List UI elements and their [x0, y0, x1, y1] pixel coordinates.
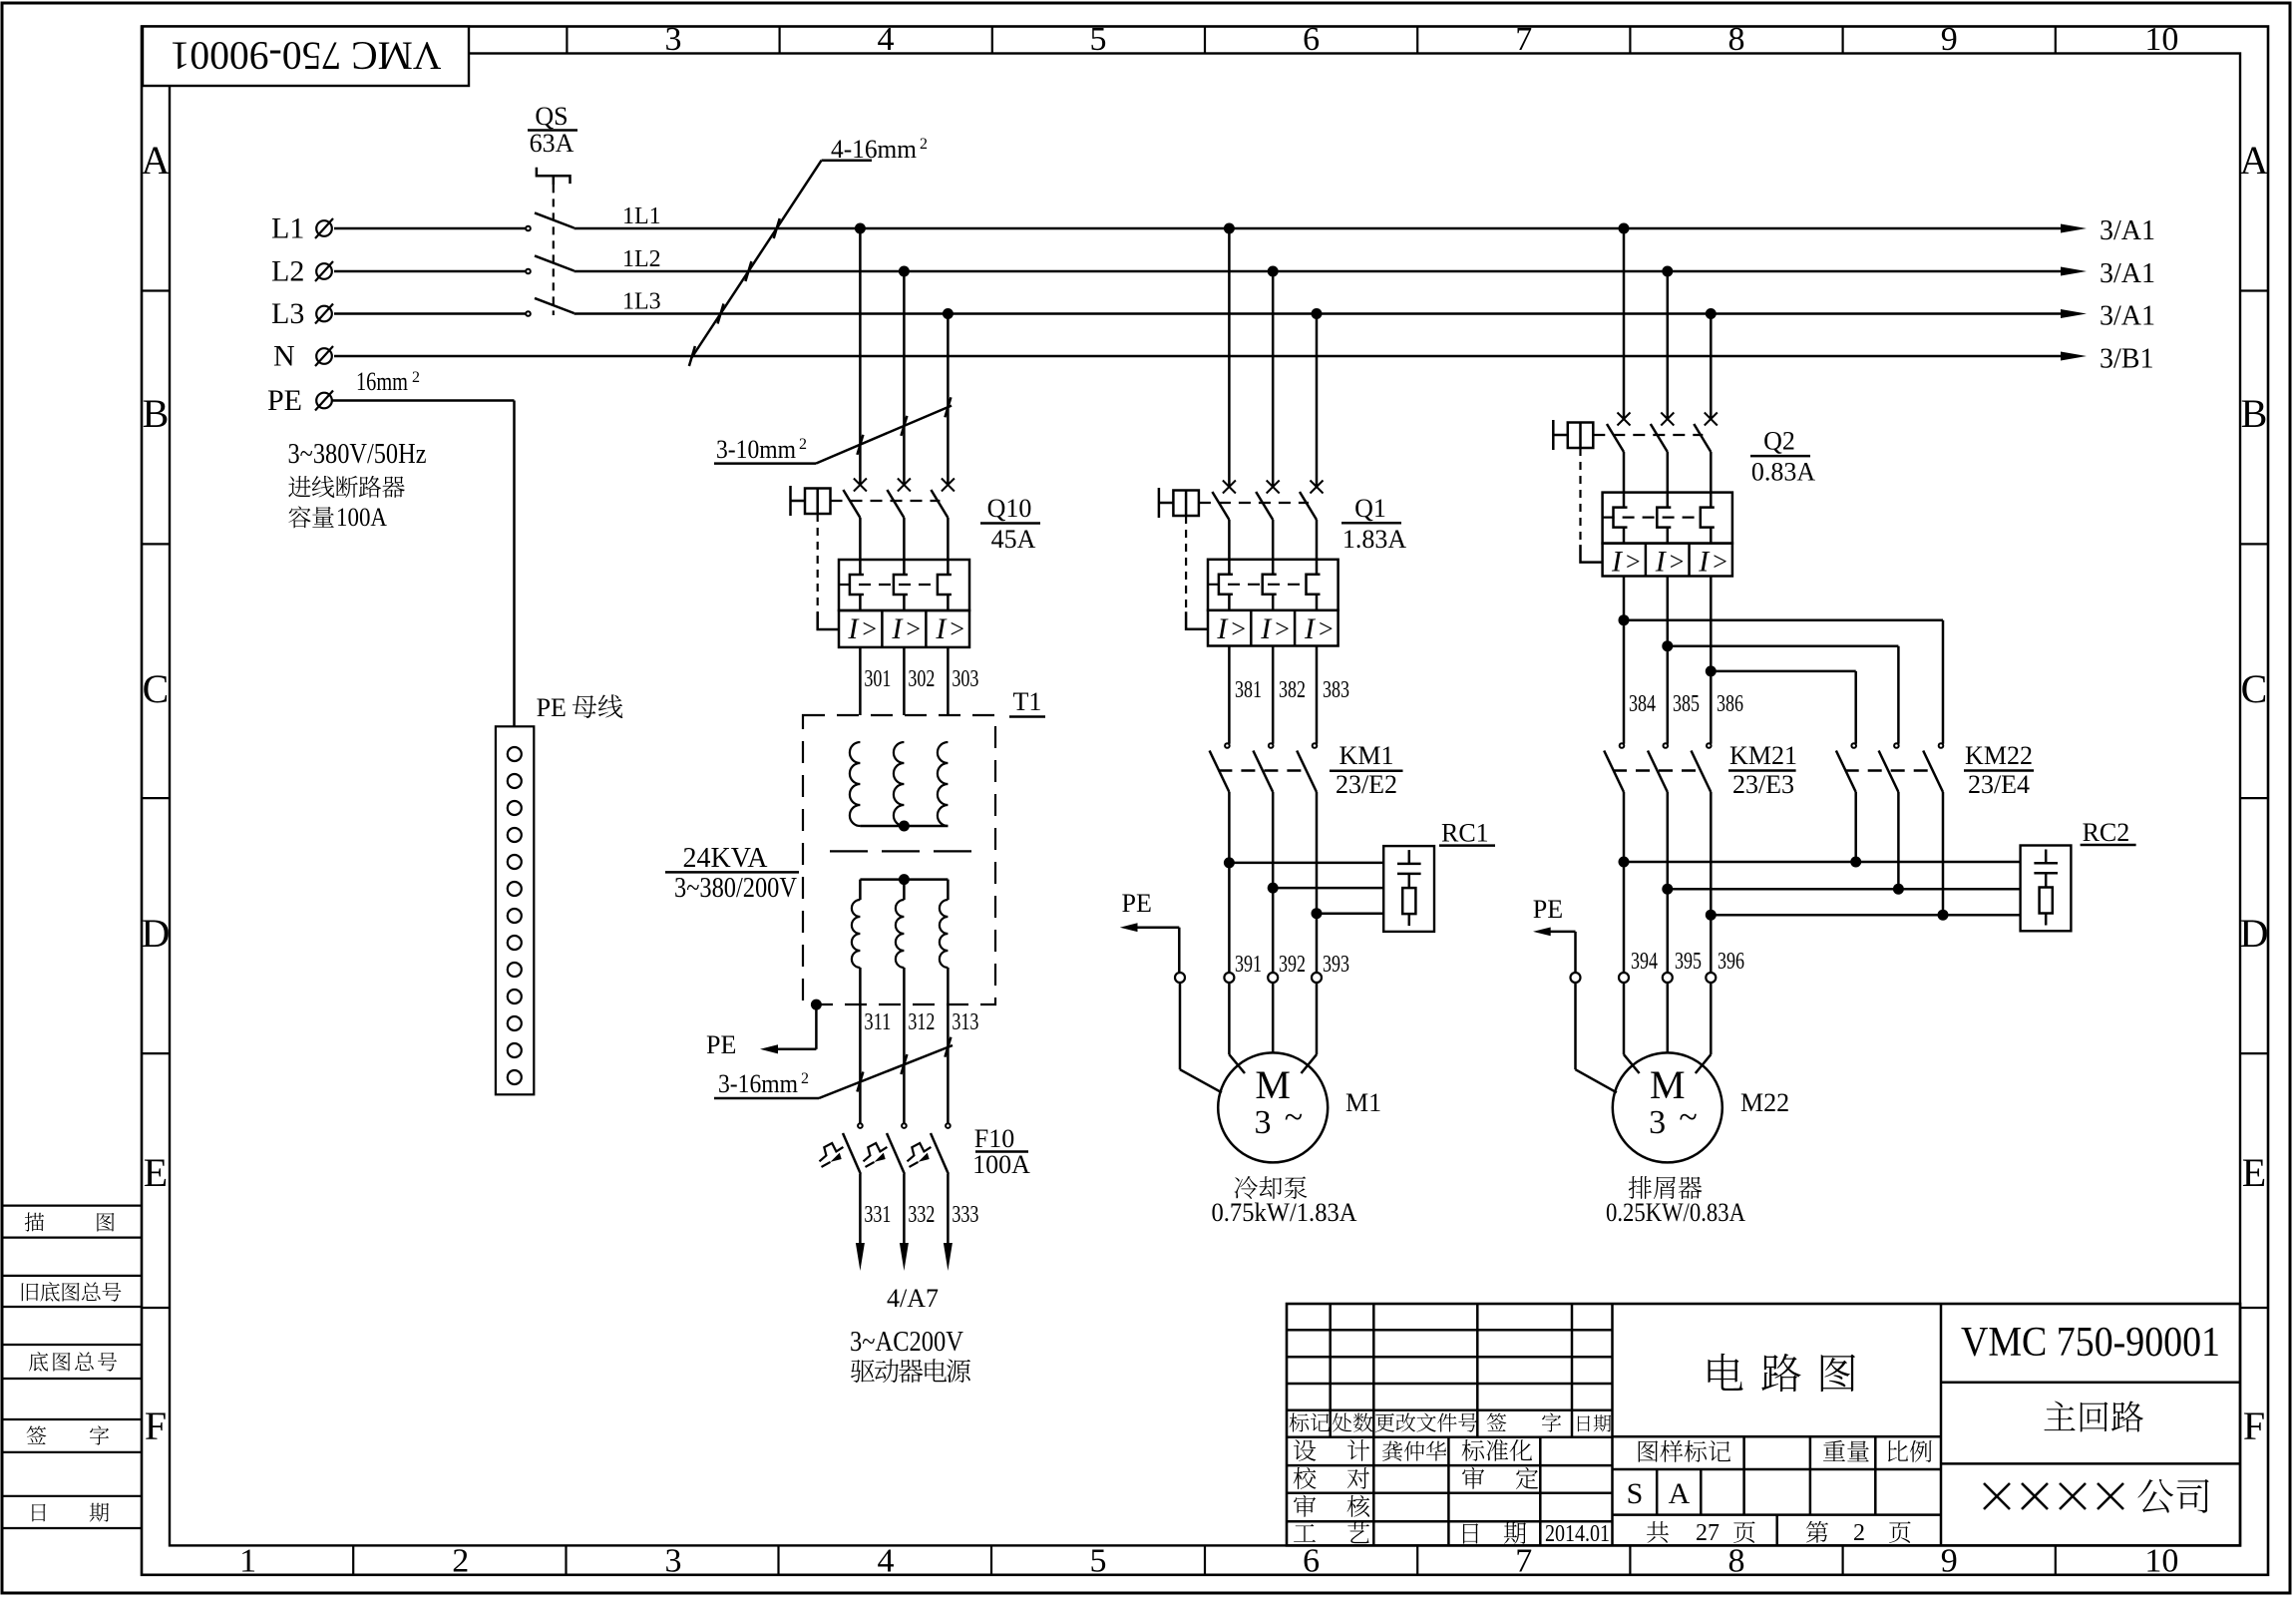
wire L2 drop to Q10: [903, 271, 906, 485]
svg-text:A: A: [2240, 138, 2269, 183]
svg-text:>: >: [1319, 614, 1334, 643]
label wire 391: [1235, 952, 1262, 978]
svg-text:392: 392: [1279, 952, 1306, 978]
label wire 392: [1279, 952, 1306, 978]
circuit breaker Q1 1.83A: [1159, 481, 1406, 646]
svg-text:381: 381: [1235, 677, 1262, 703]
wire bus N: [334, 355, 2061, 358]
junction dots RC2 row 1: [1619, 857, 1862, 868]
svg-text:E: E: [144, 1150, 168, 1195]
svg-text:0.75kW/1.83A: 0.75kW/1.83A: [1212, 1198, 1357, 1227]
svg-text:QS: QS: [535, 102, 568, 131]
svg-text:>: >: [950, 614, 964, 643]
svg-text:10: 10: [2144, 1543, 2178, 1580]
label 3~AC200V drive power: [850, 1327, 970, 1383]
svg-text:2: 2: [920, 136, 928, 153]
svg-text:3: 3: [665, 1543, 682, 1580]
wires KM1 to motor junctions: [1229, 792, 1317, 973]
wire L3 drop to Q1: [1316, 314, 1319, 488]
svg-text:RC2: RC2: [2083, 818, 2130, 847]
label wire 393: [1323, 952, 1349, 978]
label wire 302: [908, 666, 935, 692]
svg-text:10: 10: [2144, 21, 2178, 58]
disconnector QS 63A: [526, 102, 577, 316]
RC snubber RC1: [1383, 819, 1495, 932]
wire 302 to T1: [903, 647, 906, 742]
label wire 395: [1675, 949, 1702, 975]
ground PE terminal for M1: [1120, 889, 1222, 1092]
off-page connector 4/A7 drive supply: [856, 1174, 953, 1313]
svg-text:3/A1: 3/A1: [2100, 258, 2155, 289]
svg-text:KM22: KM22: [1965, 741, 2033, 770]
node N input terminal: [273, 340, 333, 373]
RC snubber RC2: [2021, 818, 2136, 931]
svg-text:311: 311: [864, 1009, 891, 1035]
svg-text:331: 331: [864, 1202, 891, 1228]
svg-text:D: D: [2240, 911, 2269, 956]
svg-text:KM21: KM21: [1729, 741, 1797, 770]
contactor KM1 23/E2: [1210, 741, 1403, 799]
ground PE tap of T1: [706, 999, 822, 1059]
wires KM21 down: [1624, 792, 1711, 973]
label wire 382: [1279, 677, 1306, 703]
svg-text:3~380V/50Hz: 3~380V/50Hz: [288, 439, 427, 470]
off-page connector 3/A1: [2061, 215, 2155, 246]
svg-text:3: 3: [1649, 1104, 1666, 1141]
svg-text:C: C: [2241, 666, 2268, 711]
wire 303 to T1: [947, 647, 950, 742]
junction dot L3 to Q1: [1312, 308, 1323, 319]
svg-text:2014.01: 2014.01: [1545, 1521, 1610, 1547]
svg-text:S: S: [1627, 1477, 1644, 1510]
junction dot L1 to Q1: [1224, 223, 1235, 234]
svg-text:PE: PE: [1533, 895, 1563, 924]
svg-text:9: 9: [1941, 1543, 1958, 1580]
label M1 cooling pump: [1212, 1176, 1357, 1227]
svg-text:303: 303: [952, 666, 978, 692]
junction dot 386 tap: [1706, 665, 1717, 676]
svg-text:E: E: [2242, 1150, 2266, 1195]
svg-text:312: 312: [908, 1009, 935, 1035]
svg-text:9: 9: [1941, 21, 1958, 58]
cable marker 4-16mm2: [689, 135, 928, 366]
label wire 1L3: [622, 289, 661, 315]
svg-text:1L3: 1L3: [622, 289, 661, 315]
node PE input terminal: [267, 384, 333, 417]
wire bus L3: [334, 312, 2061, 315]
label wire 1L2: [622, 246, 661, 272]
wires taps to KM22: [1624, 620, 1943, 744]
svg-text:4: 4: [878, 21, 895, 58]
svg-text:1.83A: 1.83A: [1342, 525, 1407, 554]
svg-text:VMC 750-90001: VMC 750-90001: [171, 34, 442, 79]
svg-text:3/B1: 3/B1: [2100, 344, 2153, 375]
label wire 396: [1718, 949, 1744, 975]
svg-text:F: F: [2243, 1403, 2265, 1448]
svg-text:23/E2: 23/E2: [1336, 770, 1397, 799]
label wire 312: [908, 1009, 935, 1035]
junction dots RC2 row 3: [1706, 910, 1949, 921]
svg-text:~: ~: [1285, 1099, 1303, 1136]
wire L1 drop to Q2: [1623, 228, 1626, 419]
svg-text:2: 2: [801, 1070, 809, 1087]
svg-text:RC1: RC1: [1441, 819, 1489, 848]
junction dot L3 to Q2: [1706, 308, 1717, 319]
svg-text:B: B: [143, 391, 170, 436]
svg-text:302: 302: [908, 666, 935, 692]
junction dot L2 to Q10: [899, 266, 910, 277]
svg-text:394: 394: [1631, 949, 1658, 975]
svg-text:Q10: Q10: [987, 494, 1032, 523]
svg-text:3~380/200V: 3~380/200V: [674, 873, 797, 904]
svg-text:~: ~: [1679, 1099, 1697, 1136]
junction dot L1 to Q10: [855, 223, 866, 234]
circuit breaker Q10 45A: [791, 479, 1041, 648]
label wire 303: [952, 666, 978, 692]
junction dot 393 to RC1: [1312, 908, 1323, 919]
svg-text:A: A: [142, 138, 171, 183]
label wire 311: [864, 1009, 891, 1035]
svg-text:>: >: [1275, 614, 1290, 643]
wires to RC1: [1229, 863, 1383, 914]
label 16mm2 on PE: [356, 367, 420, 396]
svg-text:Q1: Q1: [1354, 494, 1386, 523]
transformer T1 24KVA: [803, 687, 1045, 1123]
label wire 301: [864, 666, 891, 692]
svg-text:100A: 100A: [336, 503, 387, 532]
svg-text:7: 7: [1515, 1543, 1532, 1580]
svg-text:>: >: [1670, 548, 1685, 577]
junction dot L1 to Q2: [1619, 223, 1630, 234]
svg-text:45A: 45A: [991, 525, 1036, 554]
svg-text:313: 313: [952, 1009, 978, 1035]
svg-text:3~AC200V: 3~AC200V: [850, 1327, 963, 1358]
label wire 333: [952, 1202, 978, 1228]
junction dot 384 tap: [1619, 614, 1630, 625]
PE busbar: [496, 693, 622, 1094]
svg-text:3-10mm: 3-10mm: [716, 435, 796, 464]
svg-text:PE: PE: [1122, 889, 1152, 918]
contactor KM21 23/E3: [1604, 741, 1797, 799]
contactor KM22 23/E4: [1836, 741, 2034, 799]
svg-text:5: 5: [1090, 21, 1107, 58]
svg-text:4/A7: 4/A7: [887, 1284, 939, 1313]
wire L2 drop to Q2: [1667, 271, 1670, 419]
svg-text:L1: L1: [271, 212, 304, 245]
svg-text:T1: T1: [1013, 687, 1042, 716]
svg-text:>: >: [1626, 548, 1641, 577]
label wire 386: [1717, 691, 1743, 717]
svg-text:N: N: [273, 340, 295, 373]
svg-text:VMC 750-90001: VMC 750-90001: [1961, 1320, 2220, 1366]
svg-text:F10: F10: [974, 1124, 1014, 1153]
svg-text:2: 2: [799, 436, 807, 453]
motor M1 0.75kW: [1218, 1052, 1381, 1162]
svg-text:5: 5: [1090, 1543, 1107, 1580]
svg-text:3: 3: [1255, 1104, 1272, 1141]
wires KM22 down: [1856, 792, 1943, 915]
cable marker 3-16mm2: [714, 1037, 953, 1098]
svg-text:>: >: [862, 614, 877, 643]
svg-text:332: 332: [908, 1202, 935, 1228]
label M22 chip conveyor: [1606, 1176, 1745, 1227]
svg-text:383: 383: [1323, 677, 1349, 703]
svg-text:6: 6: [1303, 21, 1320, 58]
svg-text:385: 385: [1673, 691, 1700, 717]
svg-text:3: 3: [665, 21, 682, 58]
wire bus L1: [334, 227, 2061, 230]
svg-text:>: >: [1713, 548, 1727, 577]
svg-text:>: >: [906, 614, 921, 643]
wire L3 drop to Q2: [1710, 314, 1713, 420]
wire bus L2: [334, 270, 2061, 273]
svg-text:8: 8: [1728, 21, 1745, 58]
svg-text:M22: M22: [1740, 1088, 1789, 1117]
off-page connector 3/A1: [2061, 258, 2155, 289]
svg-text:M1: M1: [1345, 1088, 1381, 1117]
svg-text:>: >: [1231, 614, 1246, 643]
svg-text:301: 301: [864, 666, 891, 692]
svg-text:KM1: KM1: [1339, 741, 1394, 770]
wire L1 drop to Q10: [859, 228, 862, 485]
node L3 input terminal: [271, 297, 333, 330]
label wire 1L1: [622, 203, 661, 229]
svg-text:PE: PE: [537, 693, 567, 722]
svg-text:7: 7: [1515, 21, 1532, 58]
motor terminals M1: [1224, 973, 1322, 1073]
svg-text:2: 2: [412, 369, 420, 386]
junction dot L2 to Q2: [1662, 266, 1673, 277]
label T1 rating 24KVA 3~380/200V: [665, 843, 799, 904]
label wire 385: [1673, 691, 1700, 717]
svg-text:1: 1: [239, 1543, 256, 1580]
junction dots RC2 row 2: [1662, 884, 1904, 895]
svg-text:D: D: [142, 911, 171, 956]
svg-text:8: 8: [1728, 1543, 1745, 1580]
node L1 input terminal: [271, 212, 333, 245]
circuit breaker Q2 0.83A: [1553, 413, 1815, 579]
svg-text:384: 384: [1629, 691, 1656, 717]
wire 381-383 to KM1: [1229, 646, 1317, 744]
junction dot 392 to RC1: [1268, 883, 1279, 894]
svg-text:1L2: 1L2: [622, 246, 661, 272]
svg-text:4-16mm: 4-16mm: [831, 135, 917, 164]
label wire 384: [1629, 691, 1656, 717]
off-page connector 3/B1: [2061, 344, 2153, 375]
svg-text:63A: 63A: [530, 129, 574, 158]
wire L3 drop to Q10: [947, 314, 950, 486]
svg-text:391: 391: [1235, 952, 1262, 978]
svg-text:333: 333: [952, 1202, 978, 1228]
wires to RC2: [1624, 862, 2021, 915]
svg-text:2: 2: [452, 1543, 469, 1580]
wire L2 drop to Q1: [1272, 271, 1275, 487]
svg-text:24KVA: 24KVA: [682, 843, 768, 874]
motor M22 0.25KW: [1613, 1052, 1789, 1162]
wire L1 drop to Q1: [1228, 228, 1231, 487]
svg-text:100A: 100A: [972, 1150, 1030, 1179]
svg-text:0.25KW/0.83A: 0.25KW/0.83A: [1606, 1198, 1745, 1227]
junction dot L2 to Q1: [1268, 266, 1279, 277]
svg-text:395: 395: [1675, 949, 1702, 975]
svg-text:23/E3: 23/E3: [1732, 770, 1794, 799]
svg-text:A: A: [1669, 1477, 1691, 1510]
label wire 383: [1323, 677, 1349, 703]
svg-text:0.83A: 0.83A: [1751, 458, 1816, 487]
svg-text:3/A1: 3/A1: [2100, 215, 2155, 246]
wires Q2 to KM21 and taps to KM22: [1624, 577, 1711, 744]
label wire 331: [864, 1202, 891, 1228]
svg-text:B: B: [2241, 391, 2268, 436]
label wire 394: [1631, 949, 1658, 975]
svg-text:Q2: Q2: [1763, 427, 1795, 456]
wire bus PE: [333, 401, 515, 727]
svg-text:27: 27: [1696, 1520, 1720, 1546]
svg-text:6: 6: [1303, 1543, 1320, 1580]
wire 301 to T1: [859, 647, 862, 742]
svg-text:1L1: 1L1: [622, 203, 661, 229]
cable marker 3-10mm2: [714, 397, 952, 464]
svg-text:4: 4: [878, 1543, 895, 1580]
fuse switch F10 100A: [820, 1123, 1031, 1179]
ground PE terminal for M22: [1533, 895, 1617, 1092]
svg-text:PE: PE: [706, 1030, 736, 1059]
junction dot L3 to Q10: [943, 308, 954, 319]
svg-text:396: 396: [1718, 949, 1744, 975]
label wire 332: [908, 1202, 935, 1228]
node L2 input terminal: [271, 255, 333, 288]
svg-text:16mm: 16mm: [356, 367, 408, 396]
svg-text:F: F: [145, 1403, 167, 1448]
motor terminals M22: [1619, 973, 1716, 1073]
annotation supply 3~380V/50Hz: [288, 439, 427, 532]
svg-text:393: 393: [1323, 952, 1349, 978]
label wire 313: [952, 1009, 978, 1035]
svg-text:382: 382: [1279, 677, 1306, 703]
svg-text:L2: L2: [271, 255, 304, 288]
svg-text:386: 386: [1717, 691, 1743, 717]
svg-text:3/A1: 3/A1: [2100, 301, 2155, 332]
svg-text:C: C: [143, 666, 170, 711]
label wire 381: [1235, 677, 1262, 703]
off-page connector 3/A1: [2061, 301, 2155, 332]
svg-text:PE: PE: [267, 384, 302, 417]
junction dot 385 tap: [1662, 640, 1673, 651]
svg-text:L3: L3: [271, 297, 304, 330]
svg-text:2: 2: [1853, 1520, 1865, 1546]
svg-text:23/E4: 23/E4: [1968, 770, 2030, 799]
svg-text:3-16mm: 3-16mm: [718, 1069, 798, 1098]
junction dot 391 to RC1: [1224, 857, 1235, 868]
